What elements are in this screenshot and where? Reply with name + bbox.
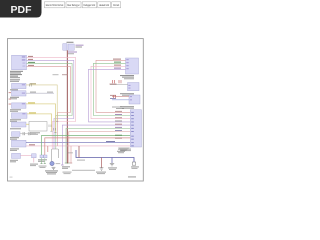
connector end 1: [40, 155, 43, 158]
capacitor ticks B7: [23, 132, 30, 135]
wire green tail 1: [41, 158, 43, 164]
label D2 wires: [110, 94, 116, 97]
label B8: [10, 148, 19, 151]
label D1: [110, 84, 135, 96]
label pink: [114, 65, 121, 66]
connector B9 (left bottom): [12, 153, 21, 158]
red dashes D2: [114, 95, 116, 98]
toolbar chip 5: [112, 2, 121, 8]
ground G2: [100, 168, 104, 170]
wire yellow stub to relay: [26, 123, 29, 125]
splice S1 box: [32, 154, 37, 158]
connector P1 audio unit (left top): [12, 55, 27, 69]
header text: [67, 42, 74, 43]
label B6: [10, 128, 21, 129]
connector B3 (left): [12, 91, 27, 96]
label B3: [10, 97, 19, 100]
tick tan end: [56, 120, 58, 122]
svg-text:Exterior Mirror Defrost: Exterior Mirror Defrost: [46, 3, 64, 7]
wire gray B3: [26, 92, 54, 94]
tick yellow outer end: [54, 132, 56, 134]
toolbar chip 2: [66, 2, 81, 8]
toolbar chip 1: [44, 2, 64, 8]
hatch under D3: [118, 147, 130, 151]
wire tan B2: [26, 85, 57, 121]
tick yellow inner end: [50, 130, 52, 132]
label grid smudge: [72, 170, 95, 171]
wire yellow loop inner: [27, 114, 52, 131]
splice S301 label: [53, 74, 59, 75]
label wire4: [28, 65, 34, 66]
label relay K1: [30, 132, 40, 135]
label ends right: [62, 166, 70, 169]
label B4: [10, 109, 21, 112]
connector D1 (right): [128, 83, 140, 91]
label S1: [30, 164, 38, 167]
wire red into D2: [112, 96, 129, 98]
page footer marks: [128, 176, 136, 177]
wire green from P1 pin3: [27, 63, 73, 149]
wire pink from P1 pin2: [27, 60, 74, 149]
connector B2 (left): [12, 83, 27, 88]
toolbar chip 4: [98, 2, 111, 8]
wire D3 row8 green long: [42, 136, 131, 156]
label gray wire: [30, 92, 36, 93]
label blue wire: [106, 141, 115, 142]
connector B7 (left small): [12, 132, 21, 137]
connector end 2: [44, 155, 47, 158]
ground G1: [52, 167, 56, 169]
splice S302 label: [62, 74, 68, 75]
svg-text:PDF: PDF: [11, 4, 33, 16]
label pink wire: [29, 144, 35, 145]
label bus left: [77, 160, 85, 161]
toolbar chip 3: [82, 2, 97, 8]
label B7: [10, 137, 19, 140]
label ends: [38, 159, 47, 162]
wire red loop to C300: [96, 60, 130, 112]
end tick red: [70, 162, 72, 164]
label under cluster: [63, 172, 72, 173]
wire red from P1 pin4: [27, 66, 71, 146]
relay K1 box: [29, 122, 56, 131]
end tick green2: [67, 162, 69, 164]
wire pink long: [26, 145, 130, 147]
fuse ticks D1: [113, 80, 122, 83]
connector D3 tall (right): [130, 110, 141, 147]
wire green tail 2: [44, 158, 46, 164]
svg-text:Defogger Grid: Defogger Grid: [84, 3, 96, 7]
wire gray B7: [20, 133, 36, 135]
wire labels D3 rows: [115, 111, 122, 139]
label D2: [120, 106, 134, 109]
bus indigo bottom right: [76, 150, 134, 162]
end tick violet: [61, 164, 64, 166]
defogger timer U-loop: [52, 149, 59, 161]
connector B5 (left): [12, 113, 28, 118]
end tick green1: [65, 162, 67, 164]
resistor R1 at bus end: [132, 162, 135, 165]
drop red G2: [101, 158, 103, 168]
label C200 text: [68, 45, 84, 55]
label D3 bottom: [118, 149, 131, 152]
wire violet from P1 pin1: [27, 57, 76, 149]
label violet: [114, 68, 121, 69]
wire D3 row6 green: [66, 128, 130, 163]
svg-text:Circuit: Circuit: [113, 3, 119, 7]
label edge speck 2: [9, 98, 11, 101]
connector B4 (left): [12, 103, 27, 108]
label tan wire: [30, 83, 36, 84]
label D3 top: [112, 107, 124, 110]
PDF badge: [0, 0, 42, 18]
wire pink to splice: [21, 155, 32, 157]
label motor: [45, 170, 58, 174]
wire blue long: [26, 142, 130, 144]
label B9: [10, 160, 18, 163]
label drops: [96, 166, 139, 174]
wire violet loop to C300: [89, 69, 131, 122]
connector C200 (top center): [63, 44, 74, 51]
label audio unit name: [10, 71, 23, 82]
label wire3: [28, 62, 35, 63]
svg-text:Heated Grid: Heated Grid: [99, 3, 109, 7]
wire maroon vertical from C200: [66, 50, 68, 163]
page sheet: [8, 39, 144, 181]
wire pink loop to C300: [91, 66, 130, 118]
label above bus: [117, 151, 125, 153]
pin labels D3: [131, 112, 134, 146]
wire D3 row9 red long: [45, 138, 130, 155]
wire yellow loop outer: [26, 104, 56, 133]
label green tails: [39, 165, 47, 168]
wire maroon riser to bus: [78, 146, 80, 158]
label C300: [120, 75, 134, 79]
label wire2: [28, 59, 33, 60]
label B2: [10, 89, 18, 90]
wire red drop: [47, 146, 49, 152]
label wire1: [28, 56, 33, 57]
svg-text:Rear Defogger: Rear Defogger: [67, 3, 79, 7]
connector C300 (right top): [126, 58, 139, 74]
label beside motor: [56, 162, 61, 165]
label edge speck 3: [9, 103, 11, 106]
label B5: [10, 119, 21, 122]
motor M1 circle: [50, 161, 54, 165]
drop blue G3: [111, 158, 113, 164]
wire D3 row7 red: [69, 132, 130, 164]
connector B6 (left): [12, 122, 27, 127]
connector B8 (left): [12, 140, 27, 147]
wire green loop to C300: [94, 63, 131, 115]
ground G3: [110, 163, 114, 166]
wire gray into D1: [110, 84, 128, 86]
wire pink drop from S1: [33, 158, 35, 163]
wire red stub vertical: [70, 146, 72, 163]
label edge speck 1: [9, 91, 11, 94]
label red: [113, 59, 121, 60]
label green: [114, 62, 121, 63]
wire D3 row5 violet: [62, 125, 130, 165]
fuse F1: [30, 84, 32, 87]
label mid bottom: [67, 151, 73, 154]
connector D2 (right): [129, 95, 140, 104]
